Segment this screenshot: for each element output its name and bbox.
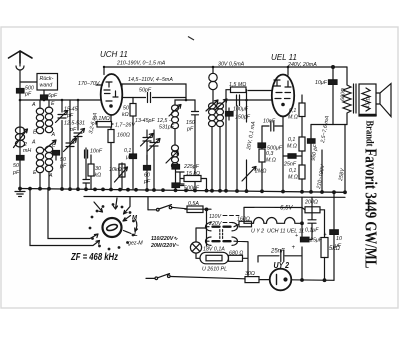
svg-text:110V: 110V (209, 214, 221, 220)
svg-text:+: + (324, 232, 327, 238)
svg-text:0,3: 0,3 (266, 151, 273, 157)
node dots grid line (185, 99, 188, 102)
mains plug contacts lower row (206, 237, 248, 245)
voltage changeover dashed links (220, 230, 223, 239)
capacitor 500pF (172, 183, 180, 188)
svg-text:kΩ: kΩ (122, 112, 129, 118)
svg-text:150pF: 150pF (235, 115, 251, 121)
svg-text:160Ω: 160Ω (237, 216, 250, 222)
svg-text:M.Ω: M.Ω (288, 175, 298, 181)
svg-text:+: + (295, 233, 298, 239)
wire 170-70V into grid (96, 84, 103, 86)
svg-text:Rück-: Rück- (40, 76, 54, 82)
wire grid line y100 to UEL11 (224, 99, 273, 101)
svg-text:12,5-531: 12,5-531 (64, 121, 85, 127)
capacitor 10uF electrolytic (330, 230, 339, 235)
resistor 0.3MOhm (261, 148, 263, 150)
svg-text:10kΩ: 10kΩ (109, 167, 122, 173)
variable inductor 2mH (15, 127, 24, 134)
svg-text:10nF: 10nF (263, 119, 276, 125)
wire x78 tuning cap line (74, 100, 82, 189)
svg-text:UEL 11: UEL 11 (271, 53, 297, 62)
scale lamp U2610PL (200, 252, 229, 263)
band switch arrow right L (124, 231, 132, 234)
svg-text:pF: pF (24, 92, 32, 98)
svg-text:E: E (33, 170, 37, 176)
capacitor 10nF small bars (83, 148, 90, 189)
svg-text:225pF: 225pF (183, 164, 200, 170)
svg-text:200Ω: 200Ω (304, 200, 318, 206)
capacitor 100uF bars (237, 95, 240, 106)
svg-text:M.Ω: M.Ω (266, 158, 276, 164)
output transformer primary 600 Ohm (343, 67, 351, 125)
wire with 50pF coupling cap (122, 93, 186, 103)
svg-text:1,7Ω: 1,7Ω (365, 96, 372, 108)
IF transformer T2 primary coil (172, 105, 179, 111)
capacitor 500pF black (258, 143, 266, 148)
wire top tuned bus y100 (20, 99, 101, 101)
wire B+ right vertical (344, 125, 346, 193)
svg-text:0,1: 0,1 (124, 148, 131, 154)
svg-text:30: 30 (95, 166, 101, 172)
resistor 0.1MOhm UEL grid (301, 95, 303, 103)
svg-text:14,5−110V, 4−5mA: 14,5−110V, 4−5mA (128, 77, 173, 83)
svg-text:1,7−26V: 1,7−26V (115, 123, 135, 129)
wire x62 down (61, 150, 63, 189)
resistor 5kOhm (321, 238, 328, 258)
wire to Rueckwand box (20, 81, 37, 83)
top supply rail 210-190V / 240V (104, 66, 347, 68)
mains plug contacts upper row (206, 223, 241, 231)
IF transformer T3 primary coil (209, 103, 216, 109)
svg-text:mH: mH (23, 148, 31, 154)
node dots bottom rail (301, 279, 304, 282)
selector arc arrow M-L (135, 220, 138, 232)
wire x262 with 500pF and 0.3MOhm (261, 126, 263, 143)
tube UEL11 electrodes (274, 80, 292, 99)
heater return switch bottom (146, 274, 245, 280)
svg-text:A: A (31, 140, 36, 146)
wire UEL11 anode to rail (287, 67, 289, 75)
svg-text:Brandt: Brandt (364, 121, 375, 147)
capacitor 60pF (144, 166, 151, 171)
T3 primary arrow (206, 100, 218, 111)
voltage selector dashes 110V (223, 215, 239, 217)
node dots on ground bus (19, 187, 22, 190)
resistor 160 Ohm heater (239, 221, 252, 227)
tube UCH11 electrodes (104, 82, 118, 101)
capacitor 150pF T2 (192, 112, 199, 190)
band switch feed wire arrow (124, 198, 131, 215)
wire UEL11 grid left (248, 90, 272, 92)
svg-text:240V, 20mA: 240V, 20mA (287, 62, 317, 68)
band switch contact dots (89, 203, 135, 250)
capacitor 25nF black (288, 154, 296, 158)
capacitor 500pF antenna (17, 89, 25, 94)
svg-text:160Ω: 160Ω (117, 133, 130, 139)
band switch rotor (103, 218, 122, 237)
resistor 160 Ohm cathode (108, 130, 114, 143)
svg-text:A: A (31, 102, 36, 108)
wire y124.5 to output (311, 124, 347, 126)
svg-text:− 6,5V: − 6,5V (275, 206, 294, 212)
T2 secondary arrow (166, 151, 178, 163)
svg-text:50pF: 50pF (139, 88, 152, 94)
resistor 30kOhm (90, 155, 92, 189)
svg-text:18V 0,1A: 18V 0,1A (203, 247, 225, 253)
resistor 1.5MOhm osc (231, 87, 247, 93)
node dots top rail (212, 66, 215, 69)
svg-text:10nF: 10nF (90, 149, 103, 155)
svg-text:pF: pF (59, 164, 67, 170)
svg-text:M.Ω: M.Ω (287, 144, 297, 150)
svg-text:110/220V∿: 110/220V∿ (151, 236, 178, 242)
fuse 0.5A (187, 206, 203, 213)
svg-text:A: A (48, 173, 53, 179)
wire L-drop 2 to band switch (48, 189, 98, 239)
svg-text:100μF: 100μF (233, 107, 249, 113)
oscillator choke coil (209, 73, 217, 81)
coil L5 oscillator (45, 146, 52, 152)
speaker voice coil winding (362, 88, 370, 111)
wire UCH11 anode to top rail (103, 67, 105, 75)
svg-text:15-45: 15-45 (64, 107, 78, 113)
svg-text:220V: 220V (208, 221, 222, 227)
svg-text:0,5A: 0,5A (188, 201, 199, 207)
svg-text:170−70V: 170−70V (78, 81, 100, 87)
svg-text:20W/220V~: 20W/220V~ (150, 243, 179, 249)
wire x226 down (226, 100, 237, 190)
svg-text:U Y 2: U Y 2 (251, 229, 264, 235)
resistor 15kOhm (184, 176, 201, 182)
svg-text:pF: pF (66, 113, 74, 119)
dial lamp feed wire (196, 228, 207, 242)
tube UCH11 envelope (101, 74, 123, 115)
band switch wiper arrows upper (94, 202, 103, 212)
svg-text:30V 0,5mA: 30V 0,5mA (218, 62, 245, 68)
ground bus main (20, 189, 345, 193)
resistor 30 Ohm (245, 277, 259, 283)
capacitor 0.1uF screen bypass (130, 154, 137, 159)
wire UEL11 cathode down (282, 116, 284, 190)
capacitor 25nF UY2 (258, 247, 302, 262)
resistor 0.1MOhm lower (299, 165, 305, 179)
capacitor bars mid line (85, 150, 88, 158)
svg-text:Favorit 3449 GW/ML: Favorit 3449 GW/ML (362, 149, 381, 269)
voltage selector dashes 220V (223, 222, 233, 224)
T3 secondary arrow (215, 99, 227, 110)
svg-text:1,5 MΩ: 1,5 MΩ (229, 82, 246, 88)
tube UEL11 envelope (272, 75, 294, 117)
coil L2 antenna secondary (48, 100, 50, 107)
trimmer 13-45pF left unit (143, 130, 151, 160)
svg-text:ZF = 468 kHz: ZF = 468 kHz (70, 252, 118, 263)
svg-text:150: 150 (186, 120, 195, 126)
stray mark top right (188, 37, 194, 41)
coil L1 antenna primary (39, 100, 41, 108)
IF transformer T3 secondary coil (217, 103, 224, 109)
svg-text:UCH 11: UCH 11 (100, 50, 128, 59)
svg-text:+: + (292, 245, 296, 251)
wire L-drop left to band switch (30, 189, 100, 246)
svg-text:0,1MΩ: 0,1MΩ (94, 116, 110, 122)
resistor 0.1MOhm mid (299, 137, 305, 151)
svg-text:2MΩ: 2MΩ (254, 169, 266, 175)
svg-text:600Ω: 600Ω (340, 88, 347, 101)
svg-text:531pF: 531pF (159, 125, 175, 131)
svg-text:μF: μF (125, 155, 133, 161)
wire T2 top loop (175, 100, 195, 111)
capacitor 0.1uF heater (308, 197, 316, 239)
wire x154 (153, 160, 155, 189)
heater chain UY2 UCH11 UEL11 (253, 217, 303, 223)
bus second line (84, 196, 345, 199)
capacitor 10uF output (329, 80, 338, 85)
svg-text:25nF: 25nF (283, 162, 297, 168)
svg-text:E: E (33, 130, 37, 136)
wire x246 down (246, 100, 248, 190)
svg-text:E: E (52, 143, 56, 149)
capacitor 50pF left column (17, 156, 25, 161)
pilot lamp 18V 0.1A (190, 242, 201, 253)
svg-text:gez-M: gez-M (128, 241, 143, 247)
svg-text:500pF: 500pF (184, 186, 200, 192)
wire x302 bus to heater (301, 197, 303, 240)
band switch arrow right M (123, 216, 131, 222)
wire UCH11 cathode down (110, 115, 112, 189)
capacitor 50pF black small mid (53, 151, 60, 156)
trimmer 15-45pF (58, 100, 66, 150)
capacitor 6pF (43, 90, 45, 95)
node junction 240V rail (332, 66, 335, 69)
node dots tuned bus (19, 99, 22, 102)
svg-text:10: 10 (336, 236, 342, 242)
svg-text:13-45pF: 13-45pF (135, 118, 155, 124)
antenna coupling hook (16, 63, 24, 88)
svg-text:60: 60 (144, 173, 150, 179)
ground symbol (15, 189, 25, 197)
heater supply -6.5V wire (244, 207, 302, 223)
svg-text:15 kΩ: 15 kΩ (186, 171, 200, 177)
resistor 0.1MOhm grid leak (96, 122, 113, 125)
capacitor 10nF coupling (262, 121, 283, 131)
svg-text:pF: pF (143, 179, 151, 185)
svg-text:UY 2: UY 2 (274, 260, 290, 270)
screen rail 14.5-110V (122, 84, 186, 100)
capacitor 225pF (172, 165, 180, 170)
Rueckwand terminal box (37, 74, 58, 91)
svg-text:50: 50 (123, 106, 129, 112)
capacitor 950pF black (308, 139, 316, 143)
svg-text:5kΩ: 5kΩ (329, 246, 340, 252)
resistor 200 Ohm (302, 208, 305, 210)
svg-text:0,1μF: 0,1μF (305, 228, 319, 234)
svg-text:6pF: 6pF (48, 93, 58, 99)
wire x322 210-190V (321, 150, 323, 192)
resistor 50kOhm screen (132, 98, 134, 155)
trimmer 12.5-531pF padder (66, 100, 74, 189)
coil L4 oscillator (36, 147, 43, 153)
svg-text:U 2610 PL: U 2610 PL (202, 267, 227, 273)
capacitor 150pF black T3 (226, 112, 234, 117)
potentiometer 10kOhm (119, 163, 125, 189)
svg-text:0,1: 0,1 (289, 168, 296, 174)
capacitor 25uF electrolytic (301, 237, 310, 242)
svg-text:30Ω: 30Ω (245, 271, 255, 277)
svg-text:pF: pF (12, 170, 20, 176)
svg-text:kΩ: kΩ (95, 173, 102, 179)
svg-text:M.Ω: M.Ω (288, 115, 298, 121)
svg-text:680 Ω: 680 Ω (229, 251, 243, 257)
svg-text:0,1: 0,1 (288, 137, 295, 143)
svg-text:0,1: 0,1 (289, 108, 296, 114)
T2 primary arrow (169, 105, 181, 117)
wire antenna down to ground bus (19, 93, 21, 189)
potentiometer 2MOhm (242, 167, 256, 182)
svg-text:10μF: 10μF (315, 80, 328, 86)
rectifier tube UY2 (270, 269, 292, 291)
band switch lever (106, 223, 118, 231)
speaker cone (376, 84, 391, 117)
svg-text:50: 50 (60, 157, 66, 163)
node after fuse (205, 208, 208, 211)
resistor 680 Ohm (229, 255, 243, 261)
svg-text:25μF: 25μF (309, 238, 323, 244)
trimmer 13-45pF right unit (150, 130, 158, 160)
svg-text:pF: pF (186, 127, 194, 133)
svg-text:210-190V, 0−1,5 mA: 210-190V, 0−1,5 mA (116, 61, 166, 67)
speaker magnet box (359, 84, 376, 116)
speaker box bottom edge (360, 114, 376, 117)
output transformer core (354, 84, 357, 113)
svg-text:50: 50 (13, 163, 19, 169)
coil L5 arrow (44, 140, 56, 150)
svg-text:L: L (134, 232, 138, 238)
svg-text:25nF: 25nF (270, 249, 285, 255)
svg-text:wand: wand (40, 83, 54, 89)
svg-text:A: A (51, 132, 56, 138)
svg-text:E: E (51, 101, 55, 107)
mains switch S1 (148, 205, 187, 210)
svg-text:UCH 11 UEL 11: UCH 11 UEL 11 (267, 229, 304, 235)
svg-text:12,5 −: 12,5 − (157, 118, 172, 124)
svg-text:pF: pF (69, 127, 77, 133)
antenna (9, 51, 33, 63)
IF transformer T2 secondary coil (172, 145, 179, 151)
